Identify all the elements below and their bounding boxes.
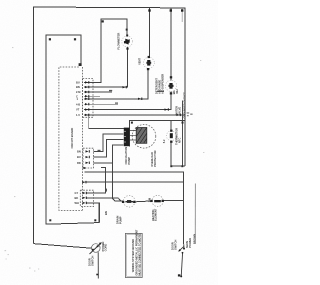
svg-text:ELEMENT: ELEMENT [154, 208, 158, 221]
svg-text:PUMP: PUMP [127, 157, 131, 165]
svg-text:4-B: 4-B [76, 102, 80, 106]
svg-text:NTC: NTC [177, 138, 181, 143]
svg-text:BU: BU [76, 81, 80, 85]
svg-text:PUMP: PUMP [118, 216, 122, 224]
svg-text:SWITCH: SWITCH [90, 256, 94, 266]
svg-text:BN: BN [104, 211, 108, 215]
svg-text:5-2: 5-2 [162, 139, 166, 143]
svg-text:PROTECTOR: PROTECTOR [153, 150, 157, 166]
svg-text:RD: RD [77, 161, 81, 165]
svg-text:BN: BN [76, 85, 80, 89]
svg-text:WH: WH [75, 201, 79, 205]
svg-text:BN: BN [77, 150, 81, 154]
svg-text:BK: BK [75, 196, 79, 200]
svg-text:NOTE:: NOTE: [137, 233, 141, 241]
svg-text:CORD: CORD [104, 244, 108, 252]
svg-text:2-M: 2-M [76, 90, 80, 94]
svg-text:VT: VT [76, 108, 80, 112]
svg-text:BROWN: BROWN [193, 234, 197, 244]
svg-text:GY: GY [75, 191, 79, 195]
svg-text:CIRCUIT BOARD: CIRCUIT BOARD [70, 128, 74, 149]
svg-text:2-M: 2-M [148, 198, 152, 202]
svg-text:MUST BE CONNECTED TO A: MUST BE CONNECTED TO A [137, 240, 141, 276]
svg-text:FLOWMETER: FLOWMETER [116, 33, 120, 50]
svg-text:BU: BU [77, 155, 81, 159]
svg-text:1-V: 1-V [76, 113, 80, 117]
svg-text:WH: WH [175, 89, 179, 93]
svg-text:GROUNDED OUTLET: GROUNDED OUTLET [183, 92, 187, 119]
svg-text:SWITCH: SWITCH [173, 240, 177, 250]
svg-text:POWER: POWER [188, 238, 192, 248]
svg-text:VENT: VENT [137, 57, 141, 64]
